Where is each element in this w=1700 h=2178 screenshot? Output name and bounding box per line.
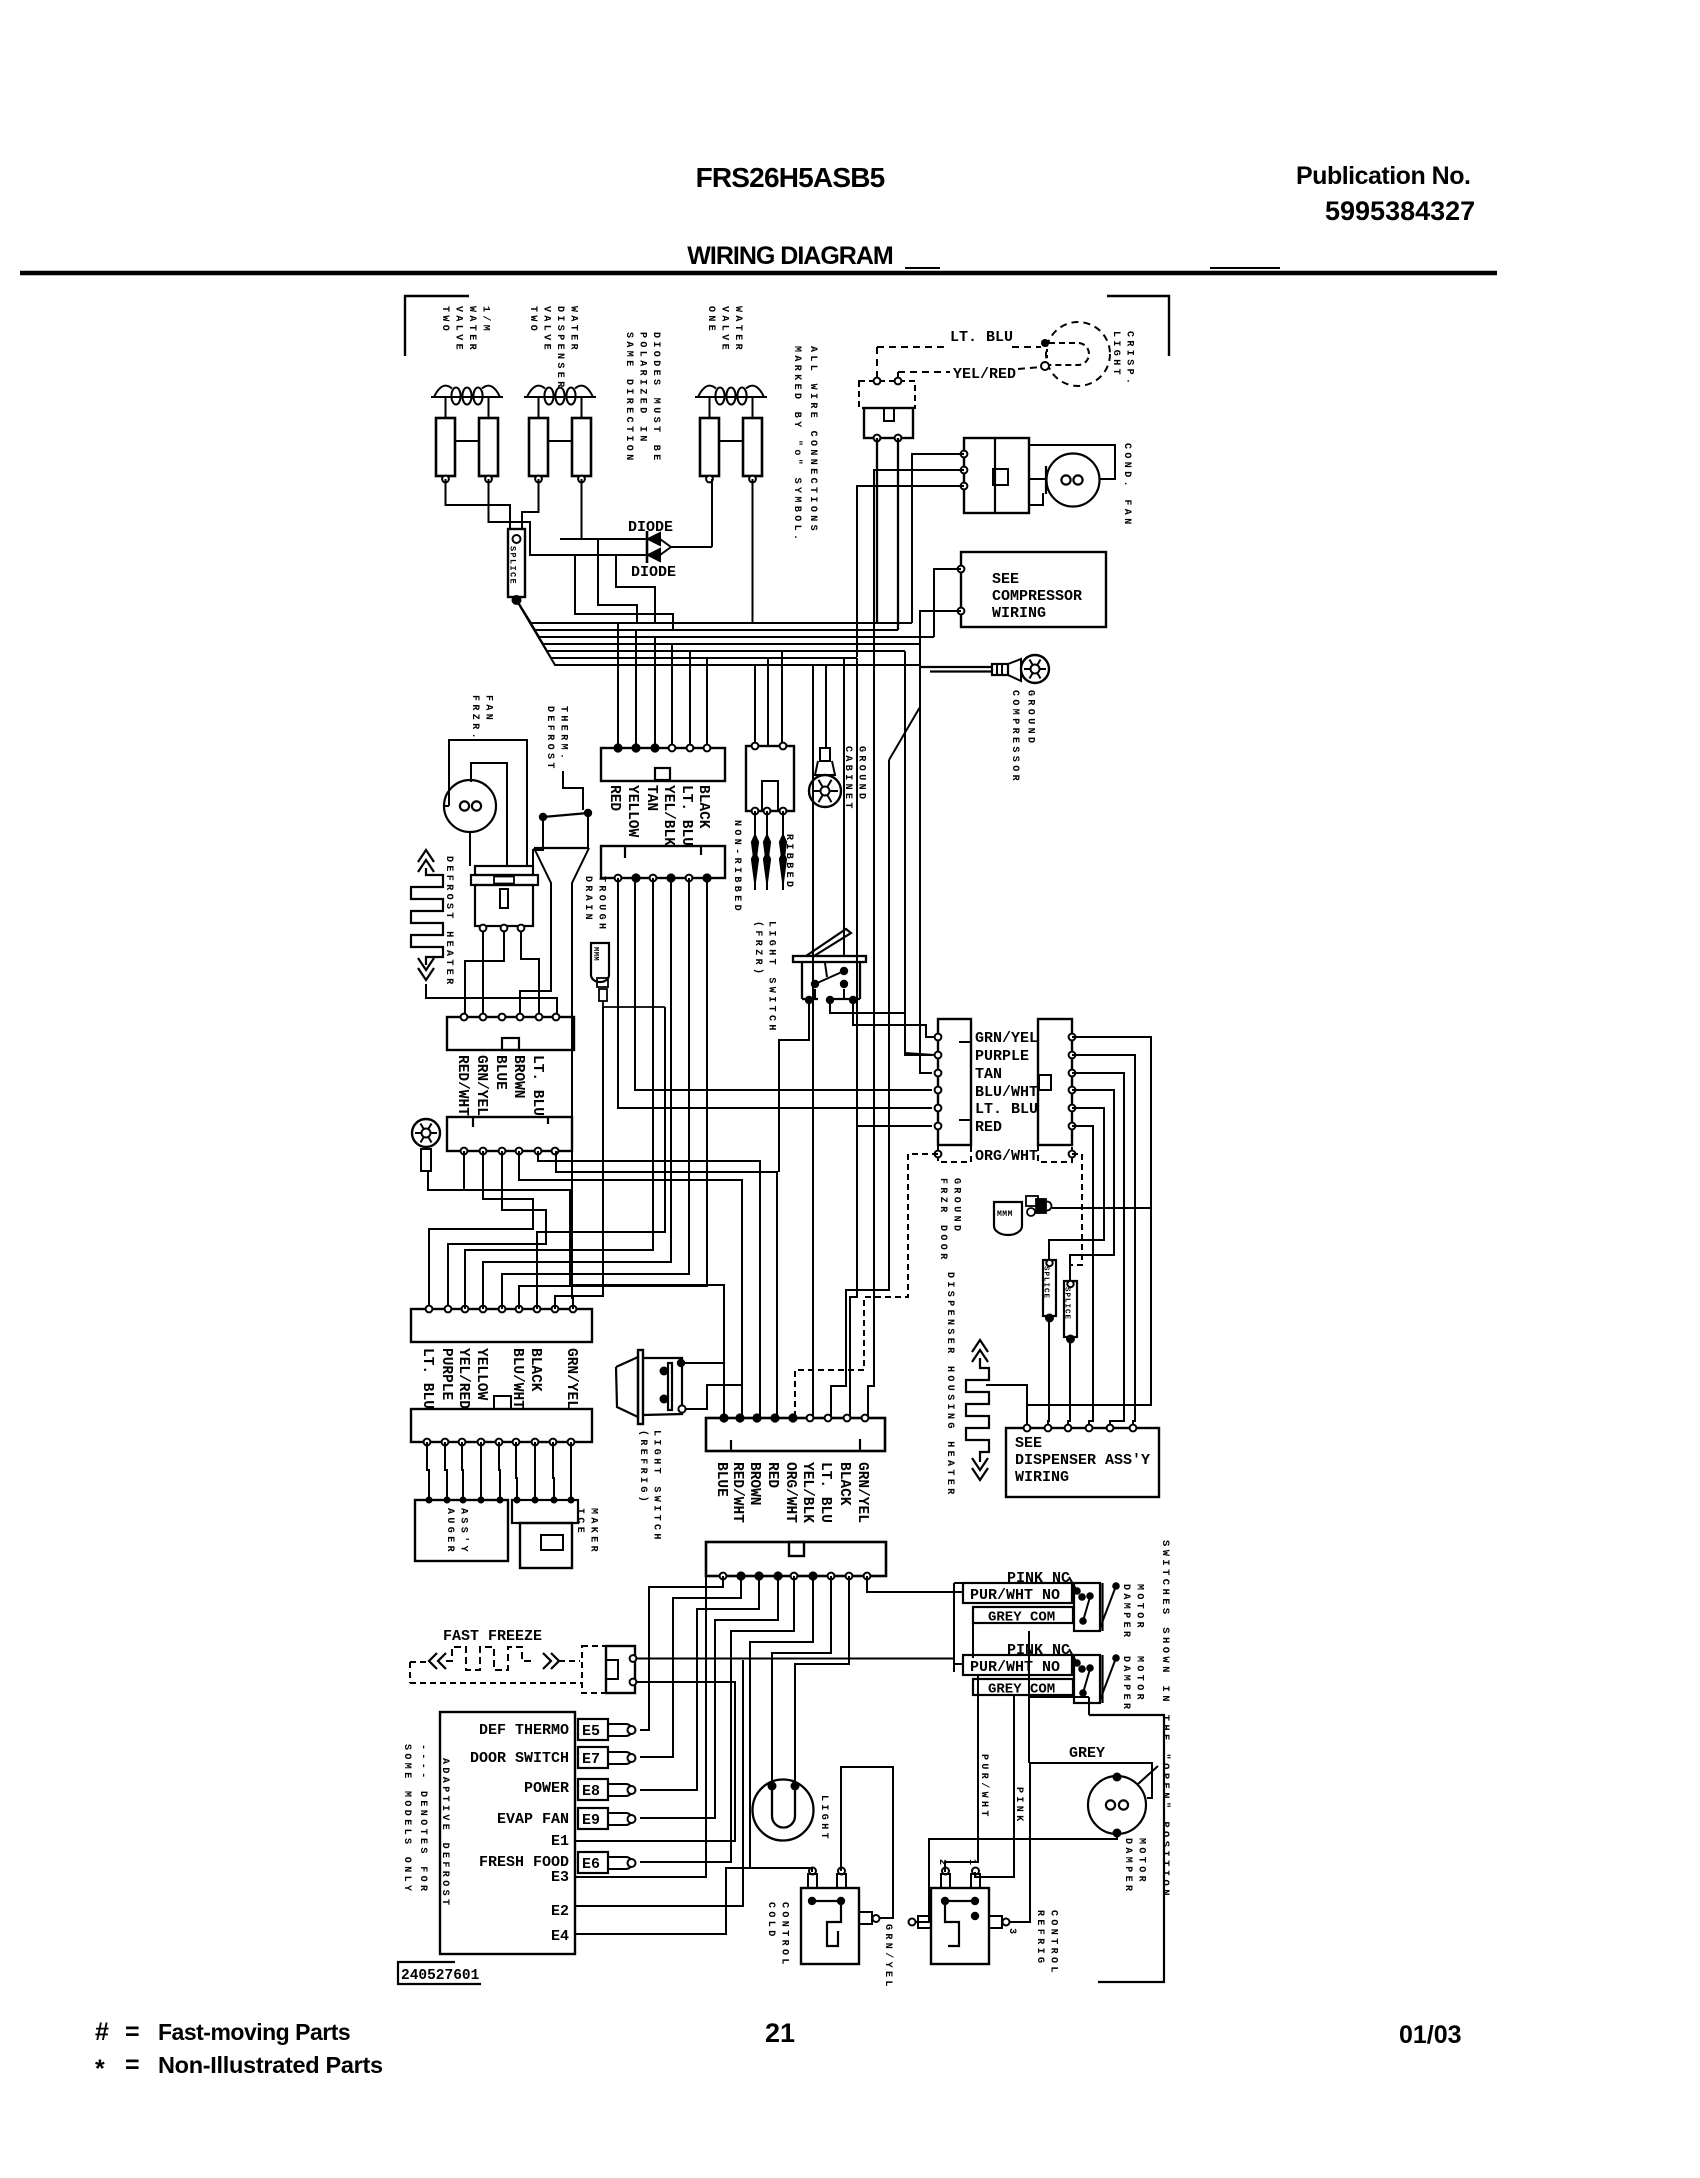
diode output node (671, 546, 712, 548)
connector A (706, 1418, 885, 1451)
svg-text:RED: RED (975, 1119, 1002, 1136)
wire light switch out 2 (830, 1000, 934, 1055)
wire cold pin2 up (841, 1767, 893, 1906)
wire therm left to heater (533, 820, 543, 866)
svg-text:LT. BLU: LT. BLU (419, 1348, 435, 1409)
svg-text:REFRIG: REFRIG (1034, 1910, 1045, 1966)
svg-text:LIGHT SWITCH: LIGHT SWITCH (766, 921, 777, 1034)
wire damper diag (1138, 1766, 1158, 1784)
svg-text:E6: E6 (582, 1856, 600, 1873)
heater assembly body (475, 885, 533, 926)
svg-text:POWER: POWER (524, 1780, 569, 1797)
svg-text:LT. BLU: LT. BLU (975, 1101, 1038, 1118)
svg-text:E3: E3 (551, 1869, 569, 1886)
freezer fan motor (444, 780, 496, 832)
T-connector below therm (534, 847, 589, 849)
wire frzr fan bottom (469, 832, 471, 866)
svg-text:PUR/WHT: PUR/WHT (978, 1754, 990, 1820)
svg-text:240527601: 240527601 (401, 1968, 480, 1984)
wire cond fan t2 left (874, 470, 964, 650)
refrig control contacts (941, 1897, 949, 1905)
dispenser door connector left (938, 1019, 971, 1145)
crisper connector plug (864, 408, 913, 438)
fan wire T1 to E5 (640, 1576, 723, 1730)
wire pink nc 1 (1069, 1577, 1077, 1591)
svg-text:GRN/YEL: GRN/YEL (975, 1030, 1038, 1047)
wire E3 (575, 1576, 706, 1877)
wire drain trough down (603, 1001, 665, 1007)
svg-text:SEE: SEE (1015, 1435, 1042, 1452)
terminal E7 (578, 1747, 608, 1768)
water valve 3 body (709, 397, 711, 418)
wire ground row stub (463, 1007, 465, 1017)
heading rule (20, 271, 1497, 276)
svg-text:LT. BLU: LT. BLU (817, 1462, 833, 1523)
svg-text:FRS26H5ASB5: FRS26H5ASB5 (696, 162, 885, 193)
wire L2t1 chain to connA T1 (464, 1151, 724, 1418)
wire L2t4 to connA T2 (519, 1151, 742, 1418)
ground symbol circle (412, 1119, 440, 1147)
svg-text:DOOR SWITCH: DOOR SWITCH (470, 1750, 569, 1767)
wire frzr ground link (1052, 1207, 1151, 1209)
svg-text:LT. BLU: LT. BLU (678, 785, 694, 846)
wire red row feed (857, 1125, 932, 1127)
wire t-conn left to L1 (520, 985, 551, 1017)
svg-text:E9: E9 (582, 1812, 600, 1829)
wires L4 to auger (427, 1442, 429, 1500)
svg-text:BLACK: BLACK (695, 785, 711, 829)
ribbed wire markers (754, 811, 756, 890)
top-left bracket (405, 296, 469, 356)
wire compressor t2 (920, 611, 961, 644)
svg-text:WIRING DIAGRAM: WIRING DIAGRAM (687, 242, 893, 270)
svg-text:ORG/WHT: ORG/WHT (975, 1148, 1038, 1165)
ground stem (421, 1149, 431, 1171)
terminal E9 (578, 1808, 608, 1829)
svg-text:(FRZR): (FRZR) (752, 921, 764, 977)
wire refrig switch to v724 (684, 1362, 724, 1364)
condenser fan motor (1047, 454, 1100, 507)
svg-text:SPLICE: SPLICE (508, 546, 518, 585)
wire disp right RED (1072, 1126, 1093, 1428)
wire center v707 to L3 (519, 878, 707, 1309)
splice S3 (1064, 1281, 1077, 1337)
svg-text:ASS'Y: ASS'Y (458, 1508, 470, 1555)
bundle drop c1 t2 (635, 630, 637, 748)
wire grey (1029, 1763, 1152, 1798)
damper switch rect GREY COM 1 (973, 1607, 1073, 1623)
wire damper motor bottom (916, 1833, 1117, 1922)
wire long v874 (868, 650, 874, 1418)
svg-text:MOTOR: MOTOR (1134, 1584, 1145, 1631)
svg-text:TAN: TAN (643, 785, 659, 811)
refrig control right tab (989, 1916, 1002, 1928)
wire long v920 (920, 707, 932, 1073)
dispenser door connector left dashed tail (938, 1145, 971, 1162)
svg-text:COLD: COLD (765, 1902, 776, 1940)
wire center v671 to L3 (483, 878, 671, 1309)
connector C1 (601, 748, 725, 781)
top-right bracket (1107, 296, 1169, 356)
bundle drop c1 t4 (671, 644, 673, 748)
defrost heater arrow top (418, 850, 434, 862)
svg-text:GREY COM: GREY COM (988, 1610, 1055, 1626)
wire L2t2 to L3t1 (429, 1151, 533, 1309)
damper motor (1088, 1776, 1146, 1834)
splice S1 (508, 529, 525, 597)
svg-text:WATER: WATER (732, 306, 743, 353)
defrost therm step wire (563, 771, 583, 810)
wire frzr ground vertical (1027, 1208, 1151, 1428)
svg-text:DAMPER: DAMPER (1120, 1656, 1131, 1712)
wire center v635 (635, 878, 932, 1090)
fan wire T4 to E9 (640, 1576, 778, 1818)
svg-text:LT. BLU: LT. BLU (950, 329, 1013, 346)
cabinet ground pin (820, 748, 830, 761)
svg-text:RED: RED (764, 1462, 780, 1488)
svg-text:RED: RED (606, 785, 622, 811)
svg-text:MAKER: MAKER (588, 1508, 599, 1555)
3-pin connector (746, 746, 794, 811)
dispenser heater arrow top (972, 1340, 988, 1352)
wire pink vertical (975, 1695, 1014, 1877)
svg-text:E2: E2 (551, 1903, 569, 1920)
wire disp right LT. BLU (1049, 1108, 1104, 1260)
wire right edge down to bracket (1089, 1715, 1164, 1982)
svg-text:E1: E1 (551, 1833, 569, 1850)
fast freeze connector dashed half (582, 1646, 606, 1693)
svg-text:ONE: ONE (705, 306, 716, 334)
water valve 2 body (538, 397, 540, 418)
wire fast freeze t1 (636, 1658, 954, 1660)
refrig control pins (941, 1874, 950, 1888)
svg-text:Fast-moving Parts: Fast-moving Parts (158, 2019, 350, 2045)
wire long v857 (850, 658, 857, 1418)
solenoid coil water valve 2 (524, 396, 596, 398)
svg-text:BLACK: BLACK (836, 1462, 852, 1506)
wire light switch out 1 (853, 1000, 934, 1037)
wire cond fan t1 left (912, 454, 964, 623)
svg-text:GRN/YEL: GRN/YEL (854, 1462, 870, 1523)
svg-text:COMPRESSOR: COMPRESSOR (992, 588, 1082, 605)
splice S2 (1043, 1260, 1056, 1316)
fan wire T9 to damper switch (867, 1576, 963, 1592)
fan wire T8 to light (795, 1576, 849, 1782)
fan wire T2 to E7 (640, 1576, 741, 1757)
wire heater t2 down (465, 931, 504, 1017)
svg-text:TWO: TWO (439, 306, 450, 334)
svg-text:DEF THERMO: DEF THERMO (479, 1722, 569, 1739)
svg-text:FAST FREEZE: FAST FREEZE (443, 1628, 542, 1645)
svg-text:PURPLE: PURPLE (975, 1048, 1029, 1065)
wire disp right TAN (1072, 1073, 1124, 1428)
wire mesh below diodes 1 (598, 539, 637, 623)
wire mesh below diodes 2 (616, 555, 655, 623)
svg-text:VALVE: VALVE (453, 306, 464, 353)
see compressor wiring box (961, 552, 1106, 627)
condenser fan connector (964, 438, 1029, 513)
svg-text:21: 21 (765, 2018, 795, 2048)
auger assembly box (415, 1500, 508, 1561)
svg-text:AUGER: AUGER (444, 1508, 455, 1555)
wire center v618 (618, 878, 932, 1108)
compressor ground lead twin (920, 666, 992, 668)
wire fast freeze t2 to E1 (575, 1682, 735, 1841)
svg-text:DISPENSER ASS'Y: DISPENSER ASS'Y (1015, 1452, 1150, 1469)
svg-text:SOME MODELS ONLY: SOME MODELS ONLY (401, 1744, 412, 1894)
svg-text:MARKED BY "o" SYMBOL.: MARKED BY "o" SYMBOL. (791, 346, 803, 543)
fast freeze chevron right (543, 1653, 551, 1669)
wire bundle from splice (517, 600, 913, 623)
wire valve2 right to diode D1 (581, 479, 583, 539)
wire grey com1 tail (972, 1622, 974, 1658)
svg-text:DRAIN: DRAIN (582, 876, 593, 923)
dispenser heater arrow bottom (972, 1458, 988, 1470)
svg-text:DAMPER: DAMPER (1122, 1838, 1133, 1894)
svg-text:Non-Illustrated Parts: Non-Illustrated Parts (158, 2052, 383, 2078)
wire riser connA T6 (812, 665, 814, 1418)
wire valve3 right down to bundle (752, 479, 754, 623)
diode D1 (560, 538, 647, 540)
wire refrig switch out2 (685, 1385, 742, 1409)
wire drain v603 to L3 (555, 1007, 603, 1309)
terminal E5 (578, 1719, 608, 1740)
bundle drop c1 t5 (689, 651, 691, 748)
svg-text:YEL/BLK: YEL/BLK (660, 785, 676, 846)
svg-text:E7: E7 (582, 1751, 600, 1768)
svg-text:YEL/RED: YEL/RED (455, 1348, 471, 1409)
svg-text:TWO: TWO (527, 306, 538, 334)
svg-text:BLU/WHT: BLU/WHT (975, 1084, 1038, 1101)
wire splice S2 down (1048, 1318, 1049, 1428)
ground symbol circle (1021, 655, 1049, 683)
wire disp right GRN/YEL (1072, 1037, 1151, 1208)
damper switch rect PUR/WHT NO 1 (963, 1583, 1072, 1603)
svg-text:(REFRIG): (REFRIG) (637, 1430, 649, 1505)
connector L4 (411, 1409, 592, 1442)
fast freeze dashed return loop (409, 1662, 411, 1683)
svg-text:PUR/WHT NO: PUR/WHT NO (970, 1659, 1060, 1676)
svg-text:GREY COM: GREY COM (988, 1682, 1055, 1698)
svg-text:RED/WHT: RED/WHT (454, 1055, 470, 1116)
wire light switch out 3 (779, 1000, 809, 1172)
svg-text:=: = (125, 2051, 140, 2079)
refrig light switch body (638, 1350, 643, 1424)
wire valve2 left to splice (522, 479, 539, 529)
fan wire T7 to light (772, 1576, 831, 1782)
heater assembly terminals (480, 925, 487, 932)
wire diode node to valve3 left (711, 479, 713, 547)
wire plug left pin down (876, 438, 878, 623)
terminal E8 (578, 1779, 608, 1800)
svg-text:ADAPTIVE DEFROST: ADAPTIVE DEFROST (439, 1758, 450, 1908)
wire compressor t1 (934, 569, 961, 637)
refrig light switch actuator (616, 1357, 638, 1417)
frzr door ground connector (1026, 1196, 1038, 1206)
wire riser to light switch (843, 658, 845, 956)
wire E2 (575, 1660, 743, 1906)
svg-text:YEL/RED: YEL/RED (953, 366, 1016, 383)
svg-text:ALL WIRE CONNECTIONS: ALL WIRE CONNECTIONS (807, 346, 818, 534)
svg-text:SAME DIRECTION: SAME DIRECTION (623, 332, 634, 464)
cold control contacts (808, 1897, 816, 1905)
terminal E6 (578, 1852, 608, 1873)
wire cond fan mid (1029, 478, 1046, 480)
svg-text:SEE: SEE (992, 571, 1019, 588)
dispenser door connector right dashed tail (1038, 1145, 1072, 1162)
wire long v889 (831, 760, 889, 1418)
wire disp right BLU/WHT (1070, 1090, 1114, 1281)
svg-text:5995384327: 5995384327 (1325, 196, 1475, 226)
wire valve1 left to splice (446, 479, 511, 529)
defrost heater zigzag (411, 868, 443, 965)
svg-text:ORG/WHT: ORG/WHT (782, 1462, 798, 1523)
wire heater t1 down (482, 931, 484, 1017)
damper switch mech 2 (1074, 1655, 1100, 1703)
water valve 1 terminals (442, 476, 449, 483)
diode D2 (560, 554, 647, 556)
svg-text:2: 2 (936, 1859, 947, 1865)
defrost thermostat switch (539, 813, 547, 821)
svg-text:LIGHT: LIGHT (818, 1795, 829, 1842)
svg-text:BROWN: BROWN (510, 1055, 526, 1099)
svg-text:PUR/WHT NO: PUR/WHT NO (970, 1587, 1060, 1604)
svg-text:CONTROL: CONTROL (1048, 1910, 1059, 1976)
damper switch rect GREY COM 2 (973, 1679, 1073, 1695)
wire heater left down (426, 984, 557, 1017)
cold control pins (808, 1874, 817, 1888)
ground symbol circle (809, 775, 841, 807)
dispenser heater zigzag (966, 1358, 989, 1462)
svg-text:MOTOR: MOTOR (1134, 1656, 1145, 1703)
svg-text:BROWN: BROWN (746, 1462, 762, 1506)
svg-text:GREY: GREY (1069, 1745, 1105, 1762)
svg-text:YELLOW: YELLOW (624, 785, 640, 838)
wire cond fan t3 left (857, 486, 964, 657)
see dispenser assy wiring box (1006, 1428, 1159, 1497)
drain trough connector bits (597, 978, 608, 987)
water valve 3 terminals (706, 476, 713, 483)
wire yel/red dashed (898, 371, 950, 373)
solenoid coil water valve 3 (695, 396, 767, 398)
wire diode feed down (575, 555, 673, 630)
wire E4 (575, 1868, 750, 1934)
svg-text:PINK NC: PINK NC (1007, 1642, 1070, 1659)
fast freeze zigzag dashed (446, 1647, 535, 1670)
wire tconn to L3 (572, 990, 573, 1309)
bottom-left part number box 240527601 (398, 1962, 481, 1984)
svg-text:MMM: MMM (591, 947, 599, 961)
wire L2t5 to connA T3 (538, 1151, 760, 1418)
connector L1 (447, 1017, 574, 1050)
svg-text:ICE: ICE (574, 1508, 585, 1536)
svg-text:VALVE: VALVE (541, 306, 552, 353)
wire lt.blu dashed (877, 346, 945, 348)
wire switch1 feed vertical (954, 1582, 963, 1584)
bundle drop cabinet ground (825, 665, 827, 748)
wire bundle diag right (889, 644, 920, 760)
bundle drop to connector C1 t1 (617, 623, 619, 748)
svg-text:NON-RIBBED: NON-RIBBED (731, 820, 742, 914)
wire pink nc 2 (1069, 1649, 1077, 1663)
freezer light switch body (801, 962, 803, 999)
svg-text:RED/WHT: RED/WHT (729, 1462, 745, 1523)
svg-text:WIRING: WIRING (1015, 1469, 1069, 1486)
svg-text:#: # (95, 2018, 109, 2046)
svg-text:SPLICE: SPLICE (1063, 1287, 1071, 1320)
fast freeze connector solid half (606, 1646, 635, 1693)
svg-text:WATER: WATER (568, 306, 579, 353)
svg-text:LIGHT: LIGHT (1110, 331, 1121, 378)
svg-text:=: = (125, 2018, 140, 2046)
svg-text:DIODES MUST BE: DIODES MUST BE (650, 332, 661, 464)
wires L4 to ice maker (516, 1442, 517, 1500)
wire heater top link (986, 1385, 1027, 1428)
svg-text:GRN/YEL: GRN/YEL (473, 1055, 489, 1116)
svg-text:RIBBED: RIBBED (783, 834, 794, 890)
bundle drop c1 t3 (654, 637, 656, 748)
wire therm right down (587, 817, 589, 848)
svg-text:EVAP FAN: EVAP FAN (497, 1811, 569, 1828)
svg-text:DIODE: DIODE (628, 519, 673, 536)
wire cond fan top loop (1029, 445, 1115, 479)
svg-text:---- DENOTES FOR: ---- DENOTES FOR (417, 1744, 428, 1894)
defrost heater arrow bottom (418, 968, 434, 980)
wire cond fan bottom hook (1029, 493, 1043, 505)
svg-text:GROUND: GROUND (1025, 690, 1036, 746)
wire ORG/WHT dashed right (1070, 1154, 1082, 1281)
damper switch rect PUR/WHT NO 2 (963, 1655, 1072, 1675)
wire valve1 right to diode D2 (489, 479, 561, 555)
bundle drop 3pin t3 (781, 651, 783, 746)
adaptive defrost board (440, 1712, 575, 1954)
connector L3 (411, 1309, 592, 1342)
svg-text:DISPENSER HOUSING HEATER: DISPENSER HOUSING HEATER (944, 1272, 955, 1498)
fast freeze chevron left (429, 1653, 437, 1669)
wire center v653 to L3 (465, 878, 653, 1309)
svg-text:Publication No.: Publication No. (1296, 162, 1470, 190)
svg-text:GRN/YEL: GRN/YEL (882, 1924, 894, 1990)
svg-text:E5: E5 (582, 1723, 600, 1740)
wire long v905 (905, 651, 932, 1055)
svg-text:DAMPER: DAMPER (1120, 1584, 1131, 1640)
wire ORG/WHT dashed left (795, 1154, 938, 1418)
svg-text:DEFROST: DEFROST (544, 706, 555, 772)
drain trough pouch (591, 943, 609, 982)
wire plug right pin down (897, 438, 899, 630)
dispenser door connector right (1038, 1019, 1072, 1145)
svg-text:YEL/BLK: YEL/BLK (799, 1462, 815, 1523)
svg-text:SPLICE: SPLICE (1042, 1266, 1050, 1299)
refrig control box (931, 1888, 989, 1964)
bundle drop c1 t6 (706, 658, 708, 748)
damper switch pointer 2 (1100, 1658, 1116, 1700)
svg-text:PURPLE: PURPLE (438, 1348, 454, 1401)
heater assembly top plate (475, 866, 533, 875)
svg-text:FRZR DOOR: FRZR DOOR (937, 1178, 948, 1263)
crisper connector dashed box (859, 381, 915, 408)
svg-text:THERM.: THERM. (558, 706, 569, 762)
svg-text:GROUND: GROUND (951, 1178, 962, 1234)
wire drain v665 to L3 (537, 1007, 665, 1309)
svg-text:COND. FAN: COND. FAN (1121, 443, 1132, 528)
cold control box (801, 1888, 859, 1964)
connector L2 (447, 1117, 572, 1151)
wire heater t3 down (521, 931, 539, 1017)
bundle drop 3pin t1 (754, 665, 756, 746)
wire switch2 feed (954, 1663, 963, 1665)
wire switch1 com to grey (1028, 1631, 1030, 1763)
